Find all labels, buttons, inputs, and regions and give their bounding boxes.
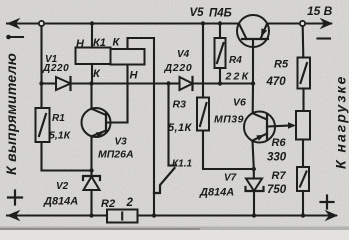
bottom scan shadow [0, 227, 349, 231]
label V4 [177, 49, 190, 60]
resistor R4 [215, 38, 226, 68]
svg-text:МП26А: МП26А [98, 149, 134, 161]
node dot R1/V2/V3e [89, 168, 93, 172]
svg-text:К нагрузке: К нагрузке [333, 75, 349, 169]
wire R7 bottom [302, 191, 304, 216]
label D814A V7 [199, 187, 234, 199]
wire winding2 bottom to V3 base [107, 65, 128, 123]
label D220 (V4) [164, 62, 193, 74]
label R2 [101, 198, 115, 210]
node dot V5 base / V6 collector [251, 81, 255, 85]
bottom rail left segment [7, 214, 107, 216]
svg-text:V3: V3 [115, 137, 128, 148]
svg-text:V7: V7 [224, 173, 237, 184]
label V3 [115, 137, 128, 148]
switch K1.1 fixed contact [169, 84, 177, 166]
node dot V7 rail [252, 213, 256, 217]
minus stub top-right [318, 37, 331, 39]
svg-text:П4Б: П4Б [209, 8, 232, 20]
label V2 [56, 181, 69, 192]
transistor V5 [237, 15, 269, 47]
wire V6 collector [252, 84, 254, 114]
plus sign bottom-right [321, 196, 334, 209]
label R1 [52, 113, 65, 124]
label K1 [93, 37, 106, 49]
label MP39 [214, 114, 244, 126]
svg-text:Д814А: Д814А [199, 187, 234, 199]
arrow right bottom [325, 210, 339, 221]
label V6 [233, 97, 246, 109]
wire V6 emitter [253, 141, 254, 169]
label N lower [130, 70, 139, 82]
node dot [39, 81, 43, 85]
wire R4 top [219, 24, 221, 39]
svg-text:Н: Н [76, 38, 85, 50]
svg-text:МП39: МП39 [214, 114, 244, 126]
node dot R4 bottom [218, 81, 222, 85]
wire V3 emitter [90, 136, 92, 170]
node dot K1.1 rail [152, 213, 156, 217]
wire left branch down to R1 [40, 26, 42, 108]
label K lower [93, 68, 101, 80]
relay K1 winding 1 [76, 48, 111, 65]
node dot rail R3 [201, 21, 205, 25]
rotated label K vypryamitelyu [3, 53, 19, 175]
wire V3 collector [90, 84, 92, 109]
resistor R7 [297, 167, 309, 191]
svg-text:470: 470 [266, 76, 287, 88]
bottom rail right segment [138, 214, 337, 216]
svg-text:Н: Н [130, 70, 139, 82]
label 750 [267, 184, 287, 196]
resistor R2 [107, 210, 138, 223]
label K [113, 37, 121, 49]
wire R4 bottom [219, 68, 221, 84]
zener V7 [246, 169, 264, 216]
node dot R7 rail [301, 213, 305, 217]
label 5,1K [49, 130, 72, 142]
svg-text:5,1К: 5,1К [49, 130, 72, 142]
svg-text:22К: 22К [225, 71, 251, 83]
relay K1 winding 2 [111, 49, 145, 65]
svg-text:5,1К: 5,1К [168, 122, 192, 134]
label V5 P4B [190, 7, 232, 20]
svg-text:Д220: Д220 [164, 62, 193, 74]
node dot V4 anode / K1.1 [166, 81, 170, 85]
node dot V2 rail [89, 213, 93, 217]
svg-text:R6: R6 [272, 137, 287, 149]
label R5 [274, 59, 289, 71]
top rail wire (left of V5) [7, 22, 239, 24]
svg-text:R2: R2 [101, 198, 115, 210]
svg-text:К1: К1 [93, 37, 106, 49]
arrow left top [7, 18, 21, 29]
node dot V6e/R3/V7 [252, 167, 256, 171]
node terminal right [300, 21, 305, 26]
label R4 [229, 55, 242, 66]
rotated label K nagruzke [333, 75, 349, 169]
label 22K [225, 71, 251, 83]
svg-text:R7: R7 [272, 170, 287, 182]
label 15 V [307, 4, 333, 18]
svg-text:R4: R4 [229, 55, 242, 66]
label D220 [42, 63, 69, 74]
svg-text:R5: R5 [274, 59, 289, 71]
wire winding2 top to K1.1 [128, 38, 155, 216]
wire R5-R6 [302, 89, 304, 112]
svg-text:V5: V5 [190, 7, 205, 19]
label 5,1K R3 [168, 122, 192, 134]
diode V4 [169, 77, 254, 90]
svg-text:V4: V4 [177, 49, 190, 60]
node dot rail/winding1 [90, 21, 94, 25]
switch K1.1 blade [154, 168, 175, 193]
resistor R6 variable [296, 111, 310, 140]
svg-text:Д814А: Д814А [43, 196, 78, 208]
wire node to V4 [92, 82, 169, 84]
label MP26A [98, 149, 134, 161]
svg-text:R1: R1 [52, 113, 65, 124]
resistor R5 [298, 58, 311, 89]
label V1 [45, 54, 58, 65]
wire V5 base [252, 39, 254, 84]
svg-text:К выпрямителю: К выпрямителю [3, 53, 19, 175]
wire R3 bottom to V7 node [203, 131, 254, 170]
wire winding1 top [91, 24, 93, 48]
wire R3 from rail [202, 24, 204, 98]
svg-text:V6: V6 [233, 97, 246, 109]
svg-text:2: 2 [126, 197, 134, 209]
label V7 [224, 173, 237, 184]
resistor R1 [36, 108, 50, 142]
arrow left bottom [7, 210, 21, 221]
transistor V6 [244, 112, 275, 143]
arrow right top [320, 18, 334, 29]
label K1.1 [172, 159, 192, 170]
svg-text:330: 330 [267, 152, 287, 164]
svg-text:К1.1: К1.1 [172, 159, 192, 170]
label D814A [43, 196, 78, 208]
wire V6 base to R6 wiper [267, 122, 296, 128]
resistor R3 [197, 98, 209, 131]
node dot V1/relay/V3c [89, 81, 93, 85]
svg-text:15 В: 15 В [307, 4, 333, 18]
label R7 [272, 170, 287, 182]
svg-text:V2: V2 [56, 181, 69, 192]
label N [76, 38, 85, 50]
wire R5 top [302, 26, 305, 57]
label R3 [173, 99, 187, 111]
svg-text:Д220: Д220 [42, 63, 69, 74]
wire R6-R7 [302, 140, 304, 168]
diode V1 [42, 77, 92, 90]
label 470 [266, 76, 287, 88]
minus stub top-left [6, 35, 23, 40]
wire R1 bottom to node [42, 142, 92, 171]
label 330 [267, 152, 287, 164]
zener V2 [83, 171, 100, 216]
label 2 [126, 197, 134, 209]
svg-text:R3: R3 [173, 99, 187, 111]
top rail wire (right of V5) [267, 22, 331, 24]
node terminal left [39, 21, 44, 26]
transistor V3 [82, 108, 111, 138]
label R6 [272, 137, 287, 149]
plus sign bottom-left [8, 191, 22, 205]
svg-text:750: 750 [267, 184, 287, 196]
node dot rail R4 [218, 21, 222, 25]
wire winding1 bottom [91, 64, 93, 84]
